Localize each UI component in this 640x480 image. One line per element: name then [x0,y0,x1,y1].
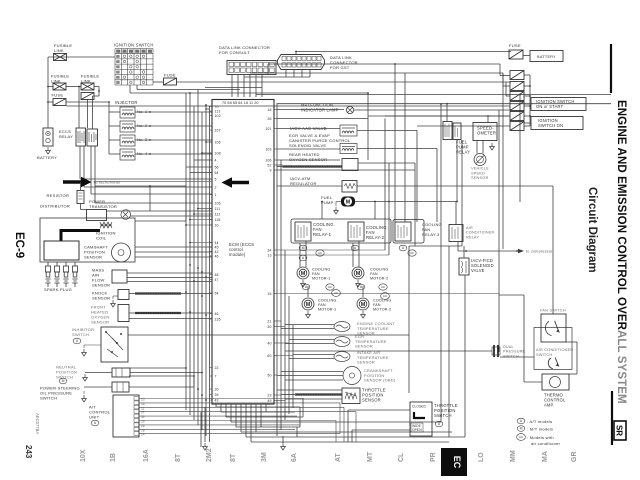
svg-text:14: 14 [141,433,145,437]
data link connector for CONSULT [227,61,276,75]
throttle sensor shielded cable [295,393,342,395]
wire right bus x368 [367,93,369,160]
wire right bus x511 x520 [519,95,521,203]
AC outer box [534,328,572,370]
battery B1 [43,128,53,146]
legend AC models [517,434,526,441]
mass air flow sensor box [112,270,127,283]
wire thick coil to distributor [61,231,100,242]
ground bottom mid [281,443,286,450]
wire right bus x293 [292,325,294,408]
cooling fan relay-3 box [395,222,411,241]
fuel pump relay box2 [453,123,461,140]
wire EGR out [357,148,437,150]
distributor assembly box [40,218,135,262]
legend A/T models [517,418,525,424]
arrow callout into ECM pins [231,181,249,184]
cooling fan motor-1b ground [306,311,311,318]
wires fuel pump relay region [446,104,448,122]
svg-text:Circuit Diagram: Circuit Diagram [586,187,598,273]
wire regulator [277,185,343,187]
wire F3 row [177,81,512,83]
wire power steering to ECM [84,386,112,388]
wires mass air flow to ECM [127,272,212,274]
inhibitor switch circled A [73,338,81,344]
wire resistor connections [80,182,82,191]
svg-text:11: 11 [141,406,145,410]
intake air temperature sensor symbol [334,352,350,362]
resistor box [77,191,84,204]
svg-text:IGNITION SWITCH: IGNITION SWITCH [114,43,154,48]
svg-text:16A: 16A [143,449,150,462]
wire right bus x385 x389 [384,119,386,251]
cooling fan relay cluster outline 2 [393,220,424,244]
EC section black box [441,448,467,476]
fuse top right [509,50,523,59]
rear O2 shielded cable [283,165,343,167]
wire right bus x449-x462 [448,246,450,437]
svg-text:SPARK PLUG: SPARK PLUG [44,287,72,292]
wires A/T control unit east [139,398,303,400]
wire right bus x395 [394,64,396,222]
cooling fan relay-2 box [348,222,364,241]
distributor cap box [44,241,79,260]
svg-text:2M2: 2M2 [206,448,213,462]
svg-text:CL: CL [398,452,405,462]
injector feed bus [108,102,110,154]
wire fuse F2 branch [98,87,100,97]
legend M/T models [517,426,525,432]
wire battery feed top [296,51,511,53]
svg-text:45: 45 [215,245,219,249]
wire FICD [457,241,459,251]
wires into ECM left pins upper [205,108,210,110]
wire speedometer feed [487,116,489,123]
svg-text:M: M [520,427,523,431]
svg-text:IACV-AAC VALVE: IACV-AAC VALVE [290,126,327,131]
svg-text:6A: 6A [291,453,298,462]
svg-text:42: 42 [215,250,219,254]
camshaft position sensor rotor [112,243,131,262]
svg-text:15: 15 [267,292,271,296]
knock sensor ground [111,300,116,307]
svg-text:8T: 8T [230,453,237,462]
svg-text:1: 1 [215,193,217,197]
svg-text:20: 20 [215,387,219,391]
svg-text:BATTERY: BATTERY [537,55,556,59]
cooling fan motor-2b symbol [357,298,369,310]
wire tachometer line [95,181,212,183]
svg-text:MT: MT [367,451,374,462]
neutral position switch circled M [59,378,67,384]
throttle position sensor box [342,388,360,404]
svg-text:70 68 65 64 18 11 20: 70 68 65 64 18 11 20 [222,101,259,105]
svg-text:64: 64 [215,171,219,175]
wires injectors to ECM [135,111,212,113]
wire MIL to bus [354,109,511,111]
svg-text:FUSE: FUSE [52,93,64,98]
front heated oxygen sensor box [118,305,129,322]
A/T control unit box [113,395,139,437]
throttle switch circled A [435,421,443,427]
svg-text:M: M [301,271,306,277]
wires camshaft sensor to ECM [135,246,212,248]
front O2 shielded cable [135,312,181,314]
svg-text:40: 40 [267,341,271,345]
power transistor box [87,210,107,221]
EGR solenoid coil [340,144,357,154]
svg-text:AT: AT [335,452,342,462]
wire dual pressure [285,350,492,352]
wire relay outputs down [79,146,81,179]
wires A/T vertical risers [339,403,341,434]
svg-text:ENGINE AND EMISSION CONTROL OV: ENGINE AND EMISSION CONTROL OVERALL SYST… [615,100,627,404]
svg-text:MA: MA [542,451,549,462]
IACV-ATM regulator resistor box [342,181,357,193]
fuel pump symbol [341,197,355,207]
svg-text:4: 4 [215,158,217,162]
svg-text:AEC077BA: AEC077BA [35,413,40,434]
wires consult connector drops [231,75,233,98]
fusible link FL2 [53,83,66,90]
svg-text:: M/T models: : M/T models [527,427,553,432]
arrow to tachometer [63,180,82,183]
fan switch rotary [545,321,559,336]
wires ECM bottom pin drops right [255,404,257,432]
wires fan switch bus [523,295,525,382]
svg-text:47: 47 [215,278,219,282]
ignition coil symbol [100,222,112,228]
cooling fan motor-1 circles [302,284,310,290]
ground bottom left [203,443,208,450]
svg-text:13: 13 [141,398,145,402]
cooling fan motor-2 symbol [352,267,364,279]
IACV-FICD solenoid box [459,258,469,275]
wire FL2 row [48,86,53,88]
svg-text:18: 18 [141,428,145,432]
wire F2 to relay drop [87,100,89,129]
wire AAC out [357,130,417,132]
engine coolant temperature sensor symbol [334,322,350,332]
svg-text:8T: 8T [175,453,182,462]
ECM ECCS control module box [212,100,274,405]
svg-text:FAN SWITCH: FAN SWITCH [540,309,566,313]
wires power transistor to ECM [107,210,212,212]
power transistor symbol [121,210,131,220]
ECCS relay box1 [76,128,86,146]
svg-text:: Models with: : Models with [527,435,554,440]
svg-text:3M: 3M [261,452,268,462]
svg-text:102: 102 [215,114,221,118]
cooling fan relay-1 box [295,222,311,241]
ECCS relay box2 [87,129,98,146]
IACV-AAC valve coil [340,125,357,136]
fuel pump ground [334,207,339,214]
svg-text:SR: SR [615,425,624,436]
svg-text:56: 56 [215,165,219,169]
svg-text:to compressor: to compressor [526,250,553,254]
svg-text:52: 52 [267,163,271,167]
air conditioner relay box [449,225,463,242]
power steering connector box [112,382,129,392]
wire right bus x281 [280,160,282,430]
wire bottom bus left risers [204,407,206,442]
svg-text:M: M [306,302,311,308]
svg-text:112: 112 [215,212,221,216]
svg-text:7: 7 [215,374,217,378]
cooling fan motor-2 circles [357,284,365,290]
wire FL1 to ignition switch [48,56,115,58]
svg-text:34: 34 [267,248,271,252]
fuse F3 [164,78,177,85]
svg-text:101: 101 [265,127,271,131]
thermo control amp box [542,374,569,390]
svg-text:23: 23 [267,393,271,397]
wire right bus x437 x441 [436,149,438,223]
wire ECM right exits upper [277,109,345,111]
wire right bus x405 x409 [404,73,406,222]
svg-text:air conditioner: air conditioner [531,441,561,446]
fuel pump relay box [443,122,452,140]
right margin rule bottom [611,391,613,445]
wires into ECM left pins mid [206,141,212,143]
svg-text:118: 118 [215,218,221,222]
svg-text:50: 50 [267,373,271,377]
fusible link FL1 [54,54,67,61]
svg-text:RESISTOR: RESISTOR [47,193,70,198]
wire neutral switch east [130,372,202,374]
wire data link east rows [268,63,500,65]
svg-text:To tachometer: To tachometer [93,180,121,185]
wires ECM bottom pin drops [215,404,217,407]
relay legend circles [299,245,307,251]
svg-text:60: 60 [267,354,271,358]
wire inhibitor to ECM [128,334,409,336]
fan switch box [541,314,566,342]
wire fuse to battery [523,55,530,57]
cooling fan relay cluster outline [291,219,391,243]
svg-text:107: 107 [215,128,221,132]
svg-text:135: 135 [215,317,221,321]
svg-text:CLOSED: CLOSED [412,405,426,409]
svg-text:2: 2 [215,185,217,189]
svg-text:30: 30 [267,325,271,329]
wire right bus x289 [288,296,290,414]
wire FICD down [464,275,466,437]
wires GST connector drops [285,70,287,78]
svg-text:MM: MM [510,450,517,462]
neutral switch ground [83,374,88,381]
speedometer ground [490,143,495,150]
svg-text:PR: PR [430,452,437,462]
svg-text:: A/T models: : A/T models [527,419,552,424]
wire feeds to fuse stack [500,75,510,77]
svg-text:70: 70 [215,105,219,109]
svg-text:106: 106 [215,140,221,144]
wire F1 feed row [48,101,53,103]
svg-text:44: 44 [215,241,219,245]
wires crankshaft sensor [281,371,343,373]
power steering switch ground [82,395,87,402]
svg-text:9: 9 [269,168,271,172]
wire battery vertical bus [47,61,49,129]
svg-text:49: 49 [267,399,271,403]
wire right bus x415 x417 [414,163,416,246]
knock sensor box [118,290,129,300]
svg-text:FUELPUMP: FUELPUMP [321,195,334,205]
wire ign boxes [524,103,531,105]
injector No.3 [120,135,135,146]
svg-text:SPEED-OMETER: SPEED-OMETER [477,126,496,136]
wire rear O2 out [358,162,415,164]
svg-text:EC-9: EC-9 [13,232,25,258]
ignition switch grid [115,49,153,86]
injector No.1 [120,107,135,118]
wire relay feeds [78,87,80,129]
ignition switch ON box [531,117,583,130]
svg-text:5: 5 [215,177,217,181]
fuse F2 [81,93,94,100]
svg-text:M: M [356,271,361,277]
fuse F1 [53,99,66,106]
cooling fan motor-1 ground [301,280,306,287]
svg-text:M: M [62,379,65,383]
wires coolant sensor [285,324,334,326]
wires intake air sensor [293,354,334,356]
spark plugs [45,262,50,287]
svg-text:16: 16 [141,402,145,406]
cooling fan motor-2b ground [361,311,366,318]
crankshaft position sensor symbol [343,367,361,385]
wires relays down to motors [299,243,301,267]
svg-text:OPEN: OPEN [412,428,422,432]
wires EGR temp sensor [289,339,334,341]
svg-text:106: 106 [215,201,221,205]
battery ground [46,147,51,154]
inhibitor switch ground [82,349,87,356]
SR section tag [614,421,626,440]
svg-text:26: 26 [141,424,145,428]
throttle position switch box [410,402,432,436]
svg-text:18: 18 [267,108,271,112]
air conditioner switch rotary [548,358,558,369]
svg-text:46: 46 [215,254,219,258]
svg-text:21: 21 [267,319,271,323]
svg-text:10: 10 [215,223,219,227]
wire right bus x277 [276,104,278,436]
malfunction indicator lamp [346,106,353,113]
svg-text:M: M [302,246,305,250]
svg-text:108: 108 [215,151,221,155]
svg-text:54: 54 [215,291,219,295]
wire right bus x285 [284,250,286,420]
svg-text:FUSE: FUSE [509,43,521,48]
svg-text:BATTERY: BATTERY [37,155,57,160]
ignition switch grid marks [123,55,126,58]
dual pressure switch symbol [494,345,498,357]
data link connector for GST [278,55,325,70]
svg-text:103: 103 [265,147,271,151]
wires throttle switch [348,409,410,411]
svg-text:22: 22 [215,366,219,370]
A/T control unit circled A [91,420,99,426]
wire fuel pump [355,201,456,203]
svg-text:ECCSRELAY: ECCSRELAY [59,129,73,139]
svg-text:13: 13 [267,253,271,257]
ignition switch grid header glyphs [116,50,120,53]
svg-text:INJECTOR: INJECTOR [115,100,138,105]
wire bus right drops [299,407,301,427]
svg-text:27: 27 [141,411,145,415]
ignition switch ON or START box [531,98,586,111]
battery top right box [530,51,563,62]
svg-text:26: 26 [267,117,271,121]
wires ECM right pins to sensor buses [277,293,500,295]
svg-text:LO: LO [478,452,485,462]
wire ignition switch out [129,85,131,93]
fuse stack right [510,71,524,80]
svg-text:106: 106 [265,158,271,162]
wires ECM right pins to relay coils [277,249,386,251]
neutral switch connector [112,368,130,377]
svg-text:39: 39 [215,393,219,397]
wire front O2 heater [129,318,212,320]
speedometer box [473,123,497,141]
svg-text:29: 29 [141,420,145,424]
vehicle speed sensor symbol [474,154,486,166]
svg-text:GR: GR [571,452,578,463]
svg-text:48: 48 [215,273,219,277]
svg-text:1B: 1B [110,453,117,462]
inhibitor switch box [101,327,128,362]
cooling fan motor-2 ground [356,280,361,287]
wire to compressor [458,250,518,252]
wire relay cluster feeds [321,202,323,220]
wire right bus x499 x503 [498,110,500,352]
wire lattice junctions [189,92,191,94]
wire lattice vertical buses left of ECM [185,93,187,410]
svg-text:M: M [361,302,366,308]
cooling fan motor-1b symbol [302,298,314,310]
injector No.4 [120,149,135,160]
rear O2 sensor box [342,159,358,171]
svg-text:DISTRIBUTOR: DISTRIBUTOR [40,204,70,209]
svg-text:113: 113 [215,109,221,113]
injector No.2 [120,121,135,132]
wire fuse stack outputs [529,75,531,126]
fusible link FL3 [81,83,94,90]
svg-text:10X: 10X [80,449,87,462]
svg-text:M: M [346,200,350,206]
svg-text:FUSE: FUSE [164,73,176,78]
cooling fan motor-1 symbol [297,267,309,279]
svg-text:111: 111 [215,207,221,211]
wires bottom bus nest [216,406,300,408]
svg-text:46: 46 [215,312,219,316]
svg-text:34: 34 [141,415,145,419]
cooling fan motor-1b feed [307,286,309,297]
EGR temperature sensor symbol [334,337,350,347]
svg-text:EC: EC [452,456,462,469]
svg-text:43: 43 [215,398,219,402]
right margin rule top [610,44,612,93]
svg-text:243: 243 [24,445,33,459]
knock sensor shielded cable [135,292,181,294]
cooling fan AC circle top [332,290,341,297]
